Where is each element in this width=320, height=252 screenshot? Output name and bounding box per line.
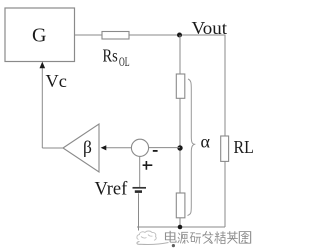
label minus (153, 150, 158, 152)
wire battery to ground rail (138, 193, 140, 230)
bottom rail wire (137, 226, 225, 228)
svg-text:RL: RL (234, 137, 254, 157)
node Vout junction (177, 33, 182, 38)
wire divider top (179, 35, 181, 74)
brace alpha (188, 79, 196, 216)
watermark char 3 yan (190, 233, 201, 244)
svg-text:Vc: Vc (46, 71, 67, 91)
battery Vref plate short (135, 190, 142, 193)
svg-text:Rs: Rs (103, 46, 118, 66)
wire tap to summing junction (149, 147, 180, 149)
svg-text:Vref: Vref (95, 180, 129, 200)
wire divider middle (179, 98, 181, 193)
summing junction (131, 139, 148, 156)
wire divider bottom (179, 218, 181, 227)
arrowhead into beta (101, 145, 107, 150)
resistor RL (221, 136, 229, 161)
wire beta output (42, 147, 63, 149)
op-amp beta triangle (63, 124, 99, 172)
resistor divider upper (176, 74, 185, 98)
battery Vref plate long (133, 187, 147, 189)
arrowhead into G (40, 62, 46, 69)
watermark char 1 dian (166, 231, 176, 242)
watermark char 2 yuan (178, 232, 189, 244)
node bottom junction (178, 225, 183, 230)
label plus (143, 161, 153, 170)
watermark char 7 quan (239, 232, 250, 244)
node divider tap (177, 145, 182, 150)
svg-text:G: G (32, 25, 46, 47)
svg-text:α: α (201, 132, 211, 152)
amplifier block G (5, 8, 75, 62)
resistor RsOL (102, 32, 129, 40)
wire summing junction to battery (139, 156, 141, 187)
watermark char 5 jing (215, 231, 226, 243)
watermark logo cloud (137, 231, 156, 240)
wire G output to RsOL (75, 34, 103, 36)
wire feedback vertical Vc (41, 67, 43, 148)
watermark char 6 ying (227, 231, 238, 243)
svg-text:β: β (83, 137, 92, 157)
wire RL branch (224, 35, 226, 228)
svg-text:OL: OL (119, 55, 130, 69)
watermark swoosh (137, 242, 169, 245)
wire summing junction to beta arrow (106, 147, 131, 149)
watermark swoosh dot (172, 244, 175, 247)
watermark char 4 fa (202, 231, 213, 244)
wire RsOL to top-right corner (129, 34, 225, 36)
svg-text:Vout: Vout (192, 18, 228, 38)
resistor divider lower (176, 193, 185, 218)
